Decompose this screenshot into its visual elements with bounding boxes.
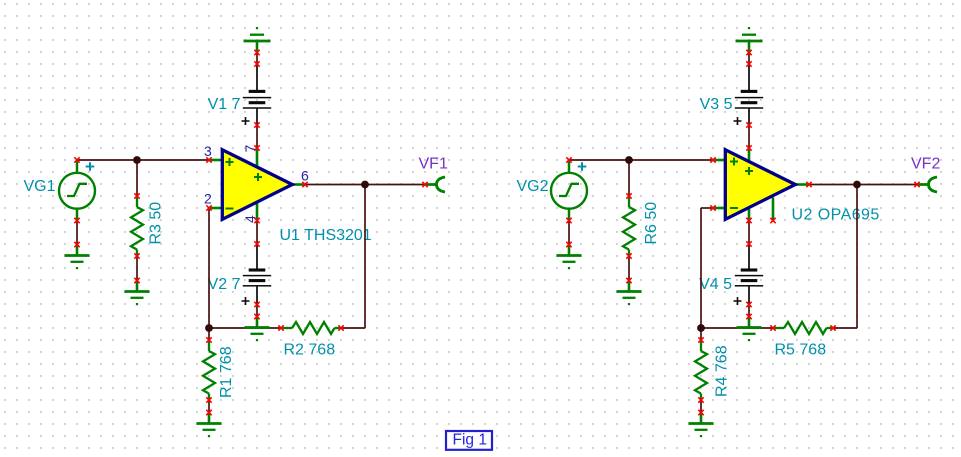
figure caption box Fig 1: [446, 431, 492, 450]
node junction U1 output/feedback: [361, 181, 369, 189]
ground (V4): [737, 317, 762, 342]
wire R3 to ground: [136, 256, 138, 281]
label R5 value 768: [775, 342, 827, 359]
wire U1 pin2 down to R1: [208, 208, 210, 340]
svg-text:V3 5: V3 5: [700, 96, 733, 113]
op-amp U1 pin number 4 (rotated): [242, 215, 258, 223]
terminal x VG2 top: [566, 157, 571, 162]
terminal x U2 V-: [746, 218, 751, 223]
svg-text:VG1: VG1: [23, 178, 55, 195]
terminal x U1 pin4: [254, 218, 259, 223]
voltage probe VF2: [918, 177, 937, 192]
op-amp U1 pin number 6: [301, 168, 309, 184]
terminal x U2 output: [806, 182, 811, 187]
terminal x R1 ground: [206, 410, 211, 415]
svg-text:Fig 1: Fig 1: [453, 432, 487, 449]
terminal x top ground V3: [746, 50, 751, 55]
terminal x R6 ground: [626, 278, 631, 283]
label VG1: [23, 178, 55, 195]
terminal x VG2 ground: [566, 242, 571, 247]
terminal x top ground V1: [254, 50, 259, 55]
battery V2: [242, 244, 272, 305]
wire top ground to V3: [748, 53, 750, 65]
battery V3: [734, 64, 764, 125]
wire top ground to V1: [256, 53, 258, 65]
wire U1 pin6 to VF1: [305, 184, 425, 186]
wire U2 output to VF2: [809, 184, 917, 186]
wire node to R3: [136, 160, 138, 196]
terminal x U2 -input: [710, 205, 715, 210]
wire node to R5: [701, 327, 773, 329]
terminal x R5 left: [770, 325, 775, 330]
terminal x R1 top: [206, 337, 211, 342]
wire feedback up to output: [364, 185, 366, 329]
svg-text:3: 3: [204, 143, 212, 159]
wire U2 -input jog: [701, 207, 713, 209]
label VG2: [516, 178, 548, 195]
terminal x R3 top: [134, 193, 139, 198]
terminal x U1 pin6: [302, 182, 307, 187]
terminal x R5 right: [830, 325, 835, 330]
terminal x V4 bottom: [746, 302, 751, 307]
svg-text:R1 768: R1 768: [218, 346, 235, 398]
resistor R6: [623, 196, 635, 256]
terminal x U1 pin3: [206, 157, 211, 162]
svg-text:U1 THS3201: U1 THS3201: [280, 227, 372, 244]
voltage generator VG2: [551, 160, 587, 221]
terminal x VG1 ground: [74, 242, 79, 247]
terminal x V3 bottom: [746, 122, 751, 127]
svg-text:R4 768: R4 768: [714, 345, 731, 397]
op-amp U2 input/supply marks: [730, 158, 753, 209]
ground (R6): [617, 281, 642, 306]
terminal x V4 top: [746, 241, 751, 246]
label R4 value 768 (rotated): [714, 345, 731, 397]
op-amp U1 pin number 3: [204, 143, 212, 159]
wire U2 -input down to R4: [700, 208, 702, 340]
label R2 value 768: [284, 342, 336, 359]
terminal x R4 top: [698, 337, 703, 342]
wire U2 V- to V4: [748, 221, 750, 245]
wire U1 pin4 to V2: [256, 221, 258, 245]
wire feedback up to output: [856, 185, 858, 329]
terminal x R3 bottom: [134, 253, 139, 258]
op-amp U2 OPA695 body: [725, 150, 795, 220]
battery V4: [734, 244, 764, 305]
svg-text:VF1: VF1: [419, 155, 448, 172]
node junction VG2/R6/U2+: [625, 156, 633, 164]
svg-text:V4 5: V4 5: [699, 276, 732, 293]
battery V1: [242, 64, 272, 125]
label V1 value 7: [208, 96, 241, 113]
svg-text:R5 768: R5 768: [775, 342, 827, 359]
terminal x VG2 bottom: [566, 218, 571, 223]
svg-text:R6 50: R6 50: [643, 202, 660, 245]
wire R6 to ground: [628, 256, 630, 281]
node junction R4/R5/U2-: [697, 324, 705, 332]
svg-text:2: 2: [204, 191, 212, 207]
terminal x U1 pin2: [206, 205, 211, 210]
label V4 value 5: [699, 276, 732, 293]
ground (R4): [689, 413, 714, 438]
wire VG2 to ground: [568, 221, 570, 245]
terminal x R1 bottom: [206, 397, 211, 402]
svg-text:6: 6: [301, 168, 309, 184]
terminal x R4 ground: [698, 410, 703, 415]
terminal x V3 top: [746, 61, 751, 66]
op-amp U1 pin number 7 (rotated): [242, 145, 258, 153]
terminal x V4 ground: [746, 314, 751, 319]
ground (top rail, V3): [736, 27, 763, 53]
terminal x U2 V+: [746, 145, 751, 150]
op-amp U1 THS3201 body: [222, 150, 292, 220]
terminal x R3 ground: [134, 278, 139, 283]
wire R1 to ground: [208, 400, 210, 413]
wire V2 to ground: [256, 305, 258, 317]
wire node to R6: [628, 160, 630, 196]
ground (R3): [125, 281, 150, 306]
wire V3 to U2 V+: [748, 125, 750, 148]
resistor R4: [695, 340, 707, 400]
label R6 value 50 (rotated): [643, 202, 660, 245]
label V2 value 7: [208, 276, 241, 293]
terminal x VF1: [422, 182, 427, 187]
op-amp U1 input/supply marks: [226, 158, 263, 209]
wire V1 to U1 pin7: [256, 125, 258, 148]
svg-text:V1 7: V1 7: [208, 96, 241, 113]
terminal x U1 pin7: [254, 145, 259, 150]
svg-text:R2 768: R2 768: [284, 342, 336, 359]
terminal x VG1 bottom: [74, 218, 79, 223]
resistor R2: [281, 322, 341, 334]
terminal x U2 DIS pin: [770, 218, 775, 223]
terminal x V2 bottom: [254, 302, 259, 307]
resistor R3: [131, 196, 143, 256]
op-amp U2 pin leads: [713, 148, 809, 221]
label V3 value 5: [700, 96, 733, 113]
voltage probe VF1: [426, 177, 445, 192]
terminal x R6 top: [626, 193, 631, 198]
label VF2: [911, 155, 940, 172]
terminal x U2 +input: [710, 157, 715, 162]
resistor R1: [203, 340, 215, 400]
wire R2 to feedback corner: [341, 327, 365, 329]
terminal x V1 bottom: [254, 122, 259, 127]
wire VG1 to ground: [76, 221, 78, 245]
terminal x R2 left: [278, 325, 283, 330]
terminal x V2 ground: [254, 314, 259, 319]
wire V4 to ground: [748, 305, 750, 317]
op-amp U1 pin number 2: [204, 191, 212, 207]
label VF1: [419, 155, 448, 172]
wire node to R2: [209, 327, 281, 329]
svg-text:U2 OPA695: U2 OPA695: [792, 207, 880, 224]
svg-text:VG2: VG2: [516, 178, 548, 195]
node junction VG1/R3/U1+: [133, 156, 141, 164]
terminal x VG1 top: [74, 157, 79, 162]
label U2 OPA695: [792, 207, 880, 224]
node junction U2 output/feedback: [853, 181, 861, 189]
voltage generator VG1: [59, 160, 95, 221]
wire VG2 to U2 +input: [569, 159, 713, 161]
terminal x R6 bottom: [626, 253, 631, 258]
ground (VG1): [65, 245, 90, 270]
resistor R5: [773, 322, 833, 334]
svg-text:R3 50: R3 50: [148, 202, 165, 245]
ground (VG2): [557, 245, 582, 270]
wire R5 to feedback corner: [833, 327, 857, 329]
label R1 value 768 (rotated): [218, 346, 235, 398]
label R3 value 50 (rotated): [148, 202, 165, 245]
wire VG1 to U1 pin3: [77, 159, 209, 161]
node junction R1/R2/U1-: [205, 324, 213, 332]
wire R4 to ground: [700, 400, 702, 413]
ground (R1): [197, 413, 222, 438]
label U1 THS3201: [280, 227, 372, 244]
terminal x R2 right: [338, 325, 343, 330]
ground (top rail, V1): [244, 27, 271, 53]
svg-text:V2 7: V2 7: [208, 276, 241, 293]
op-amp U1 pin leads: [209, 148, 305, 221]
ground (V2): [245, 317, 270, 342]
terminal x V1 top: [254, 61, 259, 66]
svg-text:VF2: VF2: [911, 155, 940, 172]
terminal x V2 top: [254, 241, 259, 246]
terminal x VF2: [914, 182, 919, 187]
terminal x R4 bottom: [698, 397, 703, 402]
